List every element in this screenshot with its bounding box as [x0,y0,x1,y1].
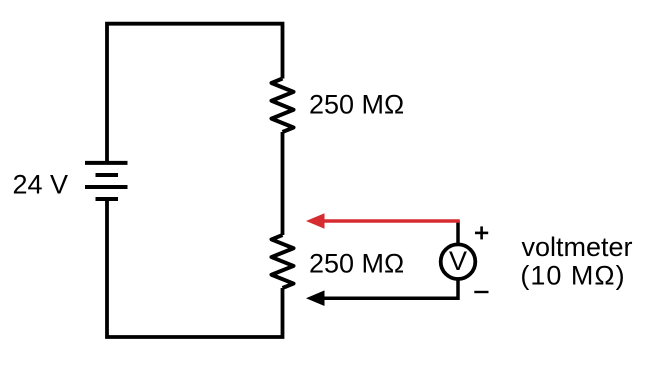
svg-text:V: V [449,246,467,276]
svg-text:voltmeter: voltmeter [521,232,632,262]
svg-text:24 V: 24 V [13,169,69,199]
svg-text:250 MΩ: 250 MΩ [309,89,404,119]
svg-text:250 MΩ: 250 MΩ [309,248,404,278]
svg-text:(10 MΩ): (10 MΩ) [520,261,625,291]
